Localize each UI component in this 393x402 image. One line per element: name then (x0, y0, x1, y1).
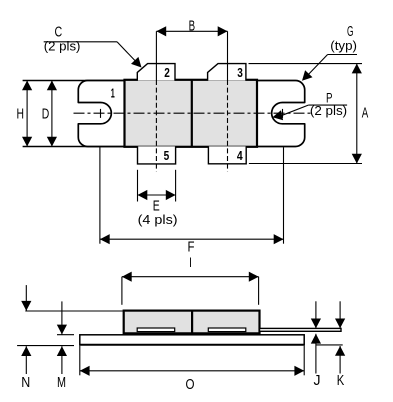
internal lead bar right (208, 328, 246, 332)
cap top extension line (25, 310, 123, 312)
svg-text:(4 pls): (4 pls) (138, 213, 178, 227)
svg-text:G: G (347, 23, 354, 40)
body cap, side view (124, 311, 260, 335)
dimension H line (22, 81, 32, 147)
svg-text:2: 2 (164, 65, 170, 80)
label M (57, 374, 66, 391)
cap bottom thick edge (124, 332, 260, 335)
pin label 2 (164, 65, 170, 80)
flange bottom extension line (17, 345, 74, 347)
flange top edge / H-D extension line (23, 80, 125, 82)
lead bottom extension line for K (316, 344, 343, 346)
dimension D line (47, 81, 57, 147)
flange bottom edge / H-D extension line (23, 146, 125, 148)
label D (42, 106, 50, 123)
label O (186, 376, 195, 393)
svg-text:J: J (314, 372, 321, 389)
svg-text:C: C (54, 23, 62, 40)
svg-text:I: I (189, 254, 192, 270)
dimension K arrows (335, 301, 345, 373)
dimension A line (249, 64, 363, 164)
flange, side view (80, 335, 304, 345)
body center divider (191, 80, 193, 147)
label P (326, 90, 333, 106)
lead tab 3 (top right, chamfered) (208, 64, 246, 81)
dimension M arrows (57, 301, 67, 374)
svg-text:5: 5 (164, 148, 170, 163)
svg-text:K: K (337, 372, 345, 389)
leader G with underline and arrow to corner radius (302, 55, 357, 81)
label J (314, 372, 321, 389)
lead tab 5 (bottom left) (138, 146, 176, 164)
lead tab 4 (bottom right) (208, 146, 246, 163)
horizontal centerline (74, 112, 312, 114)
flange top extension line (57, 334, 74, 336)
lead tab 2 (top left, chamfered) (137, 64, 175, 81)
svg-text:H: H (16, 105, 24, 122)
dimension J arrows (311, 301, 321, 373)
dimension F line (100, 147, 284, 244)
label I (189, 254, 192, 270)
label C (54, 23, 62, 40)
label K (337, 372, 345, 389)
label F (188, 238, 195, 255)
leader P with underline and arrow to slot (273, 105, 348, 120)
label G (347, 23, 354, 40)
svg-text:D: D (42, 106, 50, 123)
tab 2-5 vertical centerline (155, 80, 157, 172)
pin label 3 (237, 65, 243, 80)
pin label 1 (111, 86, 115, 101)
svg-text:N: N (21, 374, 30, 391)
svg-text:(typ): (typ) (330, 39, 357, 53)
tab 3-4 vertical centerline (227, 80, 229, 172)
label C qualifier (2 pls) (44, 40, 81, 54)
label H (16, 105, 24, 122)
label A (362, 105, 369, 122)
label N (21, 374, 30, 391)
svg-text:3: 3 (237, 65, 243, 80)
dimension O line (80, 346, 304, 376)
lead 1 (left flange tab with mounting slot) (78, 81, 124, 147)
label G qualifier (typ) (330, 39, 357, 53)
lead protruding right, side view (260, 328, 342, 331)
dimension E line (138, 170, 176, 202)
label E (153, 197, 160, 214)
cap divider, side view (191, 311, 193, 335)
right flange tab with mounting slot (257, 81, 305, 147)
internal lead bar left (137, 328, 175, 332)
svg-text:O: O (186, 376, 195, 393)
svg-text:(2 pls): (2 pls) (44, 40, 81, 54)
label E qualifier (4 pls) (138, 213, 178, 227)
body (ceramic cap), top view (125, 80, 258, 147)
svg-text:F: F (188, 238, 195, 255)
leader C with underline and arrow to chamfer (44, 42, 142, 68)
slot center mark right (282, 109, 284, 118)
svg-text:M: M (57, 374, 66, 391)
svg-text:A: A (362, 105, 369, 122)
pin label 4 (237, 148, 243, 163)
slot center mark left (100, 109, 102, 118)
svg-text:(2 pls): (2 pls) (310, 104, 347, 118)
dimension B line (156, 26, 227, 80)
svg-text:1: 1 (111, 86, 115, 101)
svg-text:B: B (189, 18, 196, 35)
pin label 5 (164, 148, 170, 163)
svg-text:4: 4 (237, 148, 243, 163)
label B (189, 18, 196, 35)
dimension N arrows (21, 285, 31, 374)
label P qualifier (2 pls) (310, 104, 347, 118)
dimension I line (122, 272, 259, 305)
